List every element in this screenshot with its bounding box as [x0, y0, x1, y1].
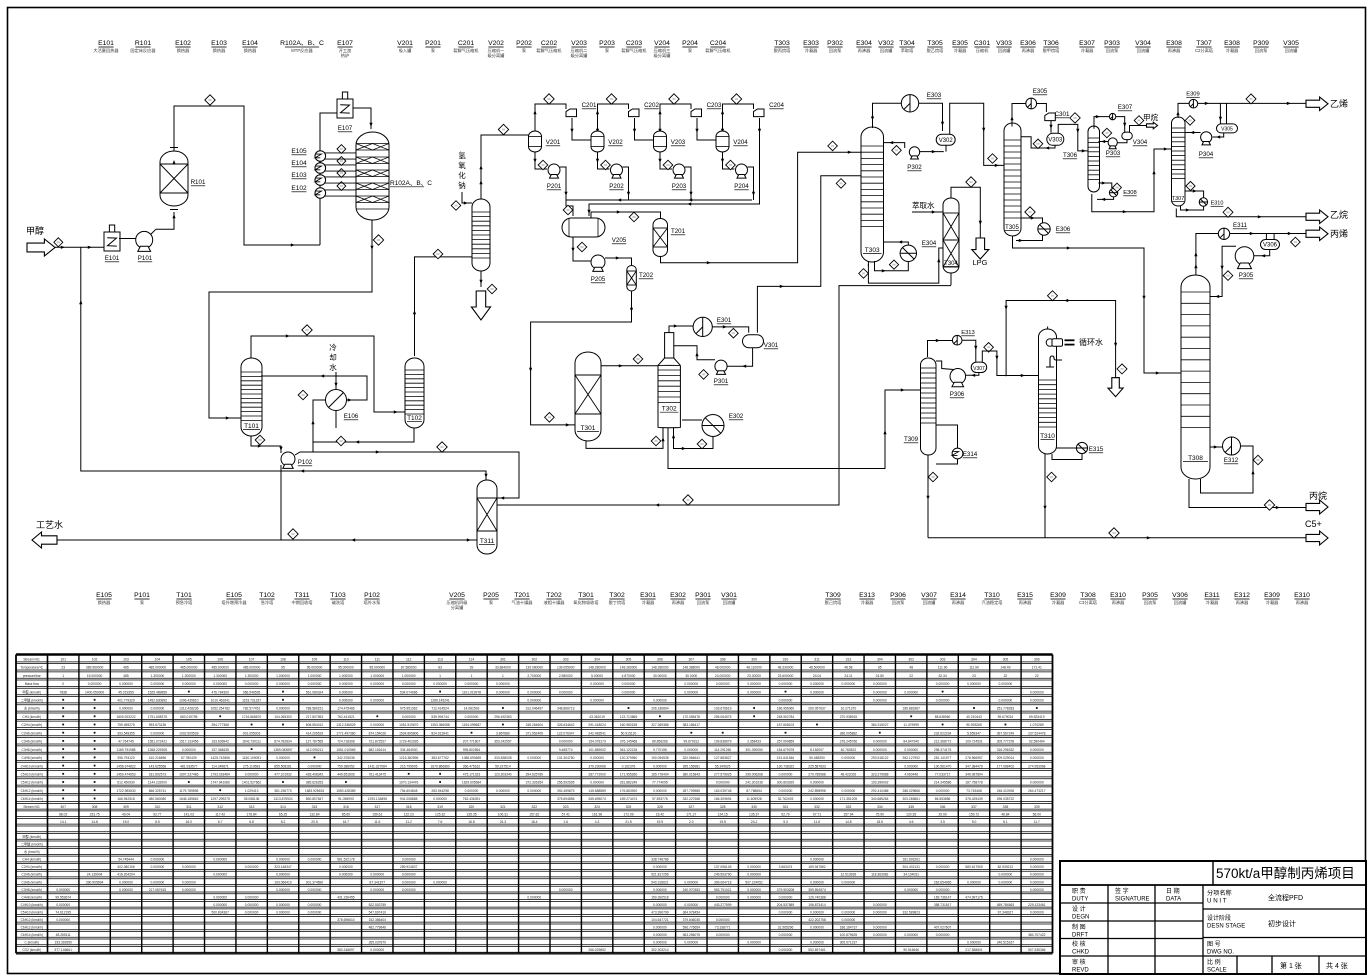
- wire T308 to E312: [1210, 446, 1223, 448]
- flow arrow: [1251, 470, 1254, 474]
- svg-text:176.863920: 176.863920: [620, 789, 638, 793]
- svg-text:签 字: 签 字: [1115, 887, 1129, 895]
- svg-text:0.000000: 0.000000: [151, 865, 165, 869]
- svg-text:29.90: 29.90: [938, 812, 946, 816]
- svg-text:122.23: 122.23: [404, 812, 414, 816]
- svg-text:24.11: 24.11: [844, 674, 852, 678]
- stream diamond 36: [1291, 237, 1301, 247]
- flow arrow: [1152, 170, 1155, 174]
- svg-text:0.000000: 0.000000: [684, 748, 698, 752]
- svg-text:301.374690: 301.374690: [306, 880, 324, 884]
- svg-text:0.000000: 0.000000: [276, 707, 290, 711]
- label P304: [1199, 151, 1214, 158]
- svg-text:0.000000: 0.000000: [999, 873, 1013, 877]
- wire C301 to V303: [1050, 121, 1052, 133]
- svg-text:762.441521: 762.441521: [337, 715, 355, 719]
- svg-text:169.736147: 169.736147: [934, 895, 952, 899]
- svg-text:0.000000: 0.000000: [402, 873, 416, 877]
- svg-text:V305: V305: [1283, 40, 1299, 47]
- svg-text:0.000000: 0.000000: [339, 682, 353, 686]
- svg-text:5.00000: 5.00000: [591, 674, 603, 678]
- equipment label E311: [1204, 592, 1220, 606]
- svg-text:E304: E304: [856, 40, 872, 47]
- flow arrow: [1010, 116, 1013, 120]
- svg-text:338: 338: [1003, 805, 1009, 809]
- svg-text:333.838008: 333.838008: [494, 756, 512, 760]
- equipment label R102A、B、C: [280, 40, 324, 54]
- svg-text:回流罐: 回流罐: [1285, 47, 1298, 54]
- svg-text:P101: P101: [134, 592, 150, 599]
- svg-text:DUTY: DUTY: [1072, 897, 1088, 903]
- svg-text:V306: V306: [1263, 243, 1278, 249]
- svg-text:0.000000: 0.000000: [842, 918, 856, 922]
- flow arrow: [687, 202, 691, 205]
- text ethylene: [1330, 98, 1348, 109]
- svg-text:169.947882: 169.947882: [808, 865, 826, 869]
- flow arrow: [932, 150, 936, 153]
- label C203: [707, 102, 722, 109]
- svg-text:874.782834: 874.782834: [274, 740, 292, 744]
- flow arrow: [658, 159, 661, 163]
- wire C202 to V203: [635, 118, 661, 140]
- svg-text:C4H10 (kmol/h): C4H10 (kmol/h): [21, 903, 43, 907]
- filter E101: [104, 225, 120, 251]
- equipment label C201: [453, 40, 479, 54]
- svg-text:336: 336: [940, 805, 946, 809]
- wire E310 return: [1181, 206, 1204, 210]
- svg-text:0.000000: 0.000000: [873, 903, 887, 907]
- svg-text:87.585000: 87.585000: [401, 666, 417, 670]
- svg-text:11.479999: 11.479999: [904, 723, 920, 727]
- flow arrow: [88, 246, 92, 249]
- svg-text:135.35: 135.35: [466, 812, 476, 816]
- svg-text:371.952406: 371.952406: [526, 731, 544, 735]
- stream diamond 35: [1223, 207, 1233, 217]
- svg-text:305.971237: 305.971237: [840, 941, 858, 945]
- svg-text:217.558601: 217.558601: [965, 948, 983, 952]
- svg-text:97.71: 97.71: [813, 812, 821, 816]
- svg-text:水 (kmol/h): 水 (kmol/h): [24, 849, 40, 854]
- flow arrow: [758, 129, 761, 133]
- svg-text:135.37: 135.37: [749, 812, 759, 816]
- svg-text:319: 319: [437, 805, 443, 809]
- svg-text:0.000000: 0.000000: [276, 873, 290, 877]
- svg-text:126.740388: 126.740388: [808, 895, 826, 899]
- svg-text:V204: V204: [733, 139, 748, 146]
- pump P302: [909, 147, 919, 159]
- svg-text:0.000000: 0.000000: [1030, 756, 1044, 760]
- svg-text:E314: E314: [963, 451, 978, 458]
- wire E105 to R102: [324, 153, 357, 159]
- svg-text:C (kmol/h): C (kmol/h): [24, 941, 39, 945]
- label T201: [671, 228, 686, 235]
- svg-text:22: 22: [1004, 674, 1008, 678]
- svg-text:1456.974822: 1456.974822: [116, 764, 135, 768]
- svg-text:1751.608375: 1751.608375: [148, 715, 167, 719]
- flow arrow: [619, 364, 623, 367]
- label P301: [714, 378, 729, 385]
- svg-text:0.000000: 0.000000: [873, 933, 887, 937]
- equipment label E101: [93, 40, 119, 54]
- svg-text:P303: P303: [1106, 150, 1121, 157]
- label T307: [1172, 196, 1185, 202]
- svg-text:V202: V202: [488, 40, 504, 47]
- pump P301: [715, 360, 727, 374]
- svg-text:0.000000: 0.000000: [339, 699, 353, 703]
- svg-text:850.807847: 850.807847: [306, 797, 324, 801]
- stream diamond 5: [298, 390, 308, 400]
- svg-text:DEGN: DEGN: [1072, 915, 1089, 921]
- equipment label T305: [927, 40, 945, 54]
- svg-text:326: 326: [657, 805, 663, 809]
- svg-text:MTP反应器: MTP反应器: [291, 47, 313, 54]
- svg-text:P304: P304: [1199, 151, 1214, 158]
- svg-text:1550.428389: 1550.428389: [336, 789, 355, 793]
- svg-text:150.392518: 150.392518: [651, 895, 669, 899]
- stream diamond 19: [651, 436, 661, 446]
- svg-text:682.151614: 682.151614: [369, 748, 387, 752]
- svg-text:50.488390: 50.488390: [809, 756, 825, 760]
- svg-text:762.436391: 762.436391: [463, 797, 481, 801]
- svg-text:85.60: 85.60: [342, 812, 350, 816]
- svg-text:CO2 (kmol/h): CO2 (kmol/h): [22, 948, 41, 952]
- svg-text:14.8: 14.8: [845, 820, 852, 824]
- svg-text:0.000000: 0.000000: [1030, 873, 1044, 877]
- svg-text:90.993265: 90.993265: [966, 723, 982, 727]
- flow arrow: [1021, 374, 1025, 377]
- wire T309 bottoms down: [927, 455, 929, 538]
- svg-text:311: 311: [186, 805, 192, 809]
- svg-text:塔外增预冷器: 塔外增预冷器: [221, 599, 247, 606]
- column T202 dryer: [627, 266, 637, 292]
- svg-text:287.709585: 287.709585: [683, 789, 701, 793]
- reactor R101 nozzles: [170, 148, 178, 210]
- wire P101 to R101: [151, 212, 175, 235]
- svg-text:0.000000: 0.000000: [496, 789, 510, 793]
- svg-text:214.345586: 214.345586: [934, 781, 952, 785]
- svg-text:冷凝器: 冷凝器: [1081, 47, 1094, 54]
- svg-text:LPG: LPG: [972, 258, 987, 267]
- svg-text:500.834367: 500.834367: [211, 910, 229, 914]
- flow arrow: [982, 128, 985, 132]
- svg-text:V205: V205: [449, 592, 465, 599]
- svg-text:水: 水: [329, 362, 337, 372]
- svg-text:R101: R101: [135, 40, 151, 47]
- svg-text:276.245766: 276.245766: [840, 740, 858, 744]
- svg-text:171.351205: 171.351205: [840, 797, 858, 801]
- svg-text:316.296332: 316.296332: [997, 748, 1015, 752]
- svg-text:159.72: 159.72: [969, 812, 979, 816]
- wire T310 to E315: [1057, 447, 1077, 449]
- svg-text:1679.866880: 1679.866880: [430, 764, 449, 768]
- wire T308 overhead to E311: [1196, 234, 1218, 275]
- text NaOH: [458, 150, 466, 190]
- svg-text:392.459875: 392.459875: [557, 789, 575, 793]
- svg-text:1534.895806: 1534.895806: [399, 731, 418, 735]
- svg-text:E104: E104: [242, 40, 258, 47]
- svg-text:E105: E105: [291, 148, 307, 155]
- wire T304 bottoms: [950, 273, 952, 285]
- wire to V306 left nozzle: [1265, 234, 1267, 241]
- svg-text:1194.099687: 1194.099687: [462, 723, 481, 727]
- svg-text:379.846035: 379.846035: [683, 918, 701, 922]
- svg-text:DRFT: DRFT: [1072, 933, 1088, 939]
- flow arrow: [596, 159, 599, 163]
- svg-text:666.325741: 666.325741: [149, 789, 167, 793]
- svg-text:E103: E103: [291, 172, 307, 179]
- svg-text:166.309694: 166.309694: [714, 797, 732, 801]
- label T309: [904, 436, 919, 443]
- svg-text:39: 39: [470, 666, 474, 670]
- svg-text:540.318621: 540.318621: [651, 880, 669, 884]
- svg-text:C202: C202: [644, 102, 659, 109]
- column T305: [1004, 123, 1021, 236]
- svg-text:260.057637: 260.057637: [808, 707, 826, 711]
- svg-text:0.000000: 0.000000: [527, 895, 541, 899]
- svg-text:612.450930: 612.450930: [117, 781, 135, 785]
- svg-text:P205: P205: [591, 276, 606, 283]
- label E305: [1033, 88, 1048, 95]
- wire P301 reflux to T302: [674, 346, 715, 360]
- stream diamond 24: [889, 260, 898, 269]
- flow arrow: [1176, 111, 1179, 115]
- svg-text:0.000000: 0.000000: [653, 941, 667, 945]
- label E309: [1186, 92, 1200, 98]
- svg-text:设 计: 设 计: [1072, 905, 1086, 913]
- svg-text:E101: E101: [98, 40, 114, 47]
- svg-text:376.425439: 376.425439: [965, 797, 983, 801]
- svg-text:265.037870: 265.037870: [369, 941, 387, 945]
- svg-text:304: 304: [594, 657, 600, 661]
- svg-text:V202: V202: [608, 139, 623, 146]
- wire V204 to P204: [723, 152, 735, 169]
- flow arrow: [1288, 232, 1292, 235]
- svg-text:1722.983530: 1722.983530: [116, 789, 135, 793]
- stream diamond 31: [1102, 128, 1112, 138]
- svg-text:0.000000: 0.000000: [119, 880, 133, 884]
- equipment label V303: [996, 40, 1012, 54]
- svg-text:0.000000: 0.000000: [810, 682, 824, 686]
- svg-text:317: 317: [374, 805, 380, 809]
- svg-text:307: 307: [60, 805, 66, 809]
- svg-text:139.055000: 139.055000: [557, 666, 575, 670]
- svg-text:293.518122: 293.518122: [871, 756, 889, 760]
- svg-text:378.696610: 378.696610: [337, 918, 355, 922]
- label V205: [612, 237, 627, 244]
- svg-text:再沸器: 再沸器: [672, 599, 685, 606]
- svg-text:7838: 7838: [60, 690, 68, 694]
- svg-text:1070.134476: 1070.134476: [399, 781, 418, 785]
- equipment label P101: [134, 592, 150, 605]
- svg-text:485.000000: 485.000000: [149, 666, 167, 670]
- svg-text:P101: P101: [138, 255, 153, 262]
- wire T305 to E306: [1021, 218, 1043, 223]
- svg-text:回流泵: 回流泵: [1255, 47, 1268, 54]
- flow arrow: [348, 398, 352, 401]
- svg-text:88.638560: 88.638560: [935, 715, 951, 719]
- svg-text:0.000000: 0.000000: [716, 933, 730, 937]
- svg-text:泵: 泵: [140, 600, 144, 605]
- svg-text:261.882249: 261.882249: [620, 781, 638, 785]
- svg-text:0.000000: 0.000000: [653, 888, 667, 892]
- svg-text:T307: T307: [1196, 40, 1212, 47]
- svg-text:3.663474: 3.663474: [779, 865, 793, 869]
- equipment label T304: [899, 40, 915, 54]
- wire ethylene product line: [1198, 102, 1306, 104]
- equipment label T303: [774, 40, 792, 54]
- svg-text:306: 306: [657, 657, 663, 661]
- svg-text:0.000000: 0.000000: [433, 682, 447, 686]
- svg-text:1.000000: 1.000000: [276, 674, 290, 678]
- svg-text:E105: E105: [96, 592, 112, 599]
- svg-text:65.25: 65.25: [279, 812, 287, 816]
- svg-text:339: 339: [1034, 805, 1040, 809]
- equipment label E308: [1224, 40, 1240, 54]
- svg-text:回流泵: 回流泵: [892, 599, 905, 606]
- svg-text:48.110000: 48.110000: [746, 666, 762, 670]
- wire T301 bottoms to T302: [586, 428, 663, 448]
- svg-text:0.000000: 0.000000: [245, 895, 259, 899]
- flow arrow: [566, 423, 570, 426]
- svg-text:0.000000: 0.000000: [276, 910, 290, 914]
- svg-text:冷凝器: 冷凝器: [1266, 599, 1279, 606]
- svg-text:193.392950: 193.392950: [54, 941, 72, 945]
- svg-text:322: 322: [531, 805, 537, 809]
- svg-text:399.064718: 399.064718: [714, 880, 732, 884]
- svg-text:P302: P302: [907, 164, 922, 171]
- svg-text:E306: E306: [1020, 40, 1036, 47]
- startup furnace E107: [337, 92, 353, 118]
- wire T103 overhead to V201: [481, 131, 536, 199]
- svg-text:975.951362: 975.951362: [400, 707, 418, 711]
- svg-text:232.622234: 232.622234: [934, 731, 952, 735]
- svg-text:176.84: 176.84: [247, 812, 257, 816]
- diamond before C202: [606, 94, 616, 104]
- svg-text:E301: E301: [717, 317, 732, 324]
- stream arrow methane: [1147, 122, 1158, 129]
- svg-text:汽油稳定塔: 汽油稳定塔: [982, 599, 1004, 606]
- svg-text:22: 22: [909, 674, 913, 678]
- svg-text:316: 316: [343, 805, 349, 809]
- svg-text:49.04: 49.04: [122, 812, 130, 816]
- svg-text:换热器: 换热器: [213, 47, 226, 54]
- svg-text:300.803929: 300.803929: [777, 781, 795, 785]
- svg-text:V304: V304: [1135, 40, 1151, 47]
- stream diamond 12: [563, 205, 573, 215]
- svg-text:分项名称: 分项名称: [1207, 889, 1232, 897]
- flow arrow: [707, 261, 711, 264]
- svg-text:T304: T304: [899, 40, 915, 47]
- wire P201 discharge: [560, 167, 566, 200]
- wire V202 to C202: [598, 104, 629, 131]
- svg-text:P203: P203: [672, 183, 687, 190]
- pump P202: [611, 164, 623, 178]
- svg-text:724.718308: 724.718308: [337, 740, 355, 744]
- svg-text:95.000000: 95.000000: [307, 666, 323, 670]
- svg-text:123.303340: 123.303340: [494, 773, 512, 777]
- svg-text:302: 302: [531, 657, 537, 661]
- svg-text:6.7: 6.7: [218, 820, 223, 824]
- exchanger E102: [315, 188, 326, 199]
- flow arrow: [1219, 117, 1222, 121]
- svg-text:E312: E312: [1234, 592, 1250, 599]
- condenser E303: [901, 95, 918, 112]
- flow arrow: [926, 496, 929, 500]
- svg-text:0.000000: 0.000000: [370, 699, 384, 703]
- svg-text:521.817256: 521.817256: [651, 873, 669, 877]
- flow arrow: [258, 444, 262, 447]
- svg-text:脱丙烷塔: 脱丙烷塔: [774, 47, 792, 54]
- flow arrow: [627, 192, 630, 196]
- svg-text:1: 1: [471, 674, 473, 678]
- flow arrow: [1064, 299, 1068, 302]
- label P205: [591, 276, 606, 283]
- svg-text:C3分离塔: C3分离塔: [1079, 599, 1098, 606]
- svg-text:304: 304: [971, 657, 977, 661]
- svg-text:1150.109091: 1150.109091: [242, 756, 261, 760]
- stream diamond 13: [629, 212, 639, 222]
- flow arrow: [661, 437, 664, 441]
- svg-text:246.515167: 246.515167: [997, 941, 1015, 945]
- wire T102 bottoms to P102: [313, 428, 414, 442]
- svg-text:206.180804: 206.180804: [651, 707, 669, 711]
- svg-text:114.291260: 114.291260: [714, 748, 731, 752]
- svg-text:0.000000: 0.000000: [56, 918, 70, 922]
- svg-text:二甲醚 (kmol/h): 二甲醚 (kmol/h): [21, 842, 43, 847]
- svg-text:131.304780: 131.304780: [557, 756, 575, 760]
- svg-text:级分离罐: 级分离罐: [488, 52, 506, 59]
- svg-text:换热器: 换热器: [177, 47, 190, 54]
- flow arrow: [1102, 181, 1106, 184]
- label P201: [547, 183, 562, 190]
- column T102: [405, 358, 424, 428]
- svg-text:11.6: 11.6: [814, 820, 820, 824]
- pump P305: [1235, 247, 1254, 269]
- svg-text:31.565296: 31.565296: [778, 926, 794, 930]
- svg-text:712.414524: 712.414524: [431, 707, 449, 711]
- svg-text:62.79: 62.79: [781, 812, 789, 816]
- equipment label V201: [397, 40, 413, 54]
- flow arrow: [1221, 266, 1224, 270]
- svg-text:0.000000: 0.000000: [1030, 699, 1044, 703]
- svg-text:4.6: 4.6: [909, 820, 914, 824]
- equipment label E301: [640, 592, 656, 606]
- equipment label E303: [803, 40, 819, 54]
- svg-text:0.000000: 0.000000: [873, 740, 887, 744]
- stream diamond 14: [577, 242, 587, 252]
- svg-text:77.774095: 77.774095: [652, 781, 668, 785]
- svg-text:313: 313: [249, 805, 255, 809]
- svg-text:P204: P204: [682, 40, 698, 47]
- svg-text:35.058136: 35.058136: [244, 797, 260, 801]
- svg-text:C301: C301: [1055, 111, 1070, 118]
- svg-text:1: 1: [439, 674, 441, 678]
- svg-text:561.089324: 561.089324: [306, 690, 324, 694]
- svg-text:裂解气压缩机: 裂解气压缩机: [453, 47, 479, 54]
- svg-text:0.000000: 0.000000: [779, 910, 793, 914]
- svg-text:0.000000: 0.000000: [842, 756, 856, 760]
- svg-text:16.0: 16.0: [186, 820, 193, 824]
- svg-text:0.000000: 0.000000: [967, 880, 981, 884]
- svg-text:91.058993: 91.058993: [338, 797, 354, 801]
- svg-text:氧: 氧: [458, 160, 466, 170]
- stream diamond 23: [988, 154, 998, 164]
- svg-text:1293.134896: 1293.134896: [368, 797, 387, 801]
- svg-text:275.110683: 275.110683: [243, 764, 260, 768]
- flow arrow: [484, 474, 487, 478]
- svg-text:T310: T310: [984, 592, 1000, 599]
- flow arrow: [1190, 131, 1194, 134]
